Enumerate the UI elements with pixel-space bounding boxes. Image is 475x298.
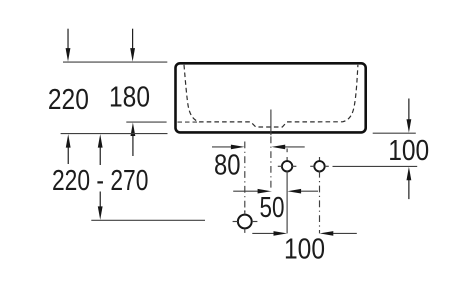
- drain hole centre mark ticks: [233, 210, 258, 233]
- arrow down 220 top: [66, 29, 71, 62]
- drain hole circle: [238, 215, 252, 229]
- extension line top rim (y=62): [63, 61, 167, 63]
- sink outline: [176, 63, 366, 132]
- arrow up 180 bottom: [131, 123, 136, 157]
- tap hole right centre line below (dash-dot): [319, 171, 321, 234]
- extension line sink bottom right (y=133.2): [373, 132, 416, 134]
- tap hole left ticks: [278, 165, 297, 167]
- svg-text:220: 220: [48, 84, 89, 116]
- dimension 100 bottom left segment with arrow: [252, 231, 287, 236]
- basin inner dashed outline: [184, 65, 358, 127]
- arrow up 220 bottom: [66, 134, 71, 164]
- dimension 80 right segment with arrow: [272, 145, 305, 150]
- arrow down 100 right: [407, 99, 412, 133]
- dimension 80 left segment with arrow: [212, 145, 245, 150]
- tap hole left centre line above: [286, 149, 288, 153]
- extension line sink bottom left (y=133.6): [61, 133, 168, 135]
- svg-text:100: 100: [284, 233, 325, 265]
- dimension 50 right segment with arrow: [287, 189, 318, 194]
- extension line tap holes right (y=166.4): [333, 165, 418, 167]
- centre line below sink (dash-dot): [270, 136, 272, 191]
- dimension 100 bottom right segment with arrow: [320, 231, 357, 236]
- arrow down 220-270 bottom: [98, 192, 103, 220]
- arrow up 220-270 top: [98, 134, 103, 165]
- tap hole right circle: [314, 161, 324, 171]
- tap hole right tick above: [319, 157, 321, 162]
- centre line inside sink: [270, 110, 272, 136]
- tap hole left tick above: [286, 157, 288, 162]
- tap hole left circle: [282, 161, 292, 171]
- extension line basin bottom inside sink (dashed): [178, 121, 198, 123]
- dimension 50 left segment with arrow: [233, 189, 271, 194]
- arrow down 180 top: [130, 29, 135, 62]
- svg-text:180: 180: [109, 82, 150, 114]
- extension line basin bottom (y=122): [126, 121, 166, 123]
- centre line drain hole (dash-dot): [244, 142, 246, 214]
- svg-text:80: 80: [214, 150, 241, 182]
- arrow up 100 right: [407, 167, 412, 199]
- svg-text:100: 100: [388, 135, 429, 167]
- tap hole left extension line below: [286, 171, 288, 233]
- tap hole right ticks: [310, 165, 329, 167]
- svg-text:50: 50: [260, 192, 285, 224]
- wall line bottom (y=220.3): [91, 219, 205, 221]
